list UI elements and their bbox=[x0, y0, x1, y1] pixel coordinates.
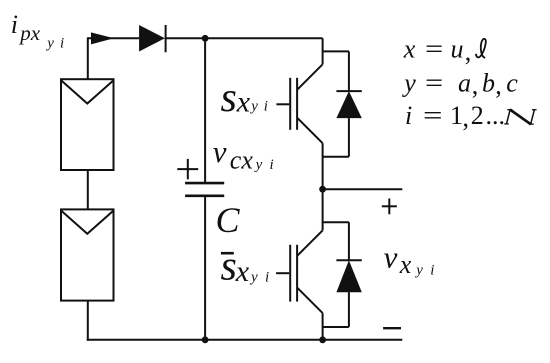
svg-text:y: y bbox=[254, 157, 263, 173]
svg-text:i: i bbox=[265, 270, 269, 286]
wire right branch top bbox=[322, 38, 324, 64]
diode D2 freewheel top bbox=[336, 51, 361, 156]
svg-text:=: = bbox=[425, 68, 443, 97]
node bottom right junction bbox=[319, 336, 326, 343]
label s_x_yi gate top bbox=[221, 75, 268, 121]
svg-text:i: i bbox=[264, 99, 268, 115]
wire stub to bottom freewheel diode upper bbox=[323, 221, 349, 223]
svg-text:i: i bbox=[270, 157, 274, 173]
wire emitter S2 to bottom bbox=[322, 313, 324, 340]
wire stub to bottom freewheel diode lower bbox=[323, 326, 349, 328]
wire left vertical top bbox=[87, 37, 89, 79]
svg-text:,: , bbox=[495, 71, 502, 100]
svg-text:...: ... bbox=[486, 101, 506, 130]
svg-text:i: i bbox=[430, 263, 434, 279]
svg-text:y: y bbox=[249, 99, 258, 115]
svg-text:y: y bbox=[414, 263, 423, 279]
node bottom capacitor junction bbox=[202, 336, 209, 343]
svg-text:u: u bbox=[451, 35, 464, 64]
wire top horizontal bbox=[88, 37, 323, 39]
wire stub to top freewheel diode upper bbox=[323, 50, 349, 52]
svg-text:i: i bbox=[60, 36, 64, 52]
node top junction bbox=[202, 35, 209, 42]
svg-text:cx: cx bbox=[230, 145, 254, 174]
label definitions line 1: x = u,l bbox=[403, 35, 486, 66]
svg-text:x: x bbox=[399, 250, 412, 279]
wire between panels bbox=[87, 170, 89, 209]
node midpoint bbox=[319, 186, 326, 193]
svg-text:c: c bbox=[506, 68, 518, 97]
svg-text:,: , bbox=[472, 71, 479, 100]
svg-text:x: x bbox=[236, 86, 251, 119]
svg-text:v: v bbox=[213, 134, 227, 169]
minus output terminal mark bbox=[383, 327, 401, 329]
svg-text:s: s bbox=[221, 75, 237, 121]
wire capacitor branch lower bbox=[204, 196, 206, 340]
svg-text:s: s bbox=[221, 243, 237, 289]
diode D3 freewheel bottom bbox=[336, 222, 361, 327]
wire emitter S1 to midpoint bbox=[322, 143, 324, 189]
IGBT S1 top bbox=[276, 64, 322, 143]
svg-text:v: v bbox=[384, 239, 398, 274]
wire capacitor branch upper bbox=[204, 38, 206, 183]
svg-text:C: C bbox=[216, 200, 241, 240]
label definitions line 3: i = 1,2...N bbox=[405, 101, 537, 132]
svg-text:,: , bbox=[465, 37, 472, 66]
svg-text:1: 1 bbox=[450, 101, 463, 130]
wire bottom horizontal bbox=[87, 339, 403, 341]
svg-text:=: = bbox=[425, 35, 443, 64]
svg-text:y: y bbox=[249, 270, 258, 286]
svg-text:x: x bbox=[235, 255, 250, 288]
PV panel PV2 bbox=[61, 209, 114, 300]
svg-text:x: x bbox=[403, 35, 416, 64]
label definitions line 2: y = a,b,c bbox=[401, 68, 518, 99]
svg-text:,: , bbox=[463, 103, 470, 132]
overbar of sbar bbox=[221, 252, 234, 255]
wire stub to top freewheel diode lower bbox=[323, 156, 349, 158]
svg-text:i: i bbox=[405, 101, 412, 130]
svg-text:y: y bbox=[45, 36, 54, 52]
IGBT S2 bottom bbox=[276, 230, 323, 313]
label sbar_x_yi gate bottom bbox=[221, 243, 270, 289]
diode D1 blocking bbox=[139, 25, 166, 52]
label i_px_yi bbox=[11, 10, 64, 52]
wire output plus terminal bbox=[323, 188, 403, 190]
capacitor C plates bbox=[185, 183, 224, 196]
svg-text:2: 2 bbox=[471, 101, 484, 130]
svg-text:y: y bbox=[401, 68, 416, 97]
svg-text:i: i bbox=[11, 10, 18, 39]
svg-text:a: a bbox=[458, 68, 471, 97]
PV panel PV1 bbox=[61, 79, 114, 170]
label v_x_yi output voltage bbox=[384, 239, 435, 279]
label v_cx_yi capacitor voltage bbox=[213, 134, 274, 174]
wire left vertical bottom bbox=[87, 301, 89, 341]
wire midpoint to S2 collector bbox=[322, 189, 324, 230]
svg-text:b: b bbox=[482, 68, 495, 97]
plus output terminal mark bbox=[382, 199, 397, 215]
svg-text:px: px bbox=[18, 21, 41, 45]
current arrow i_px bbox=[91, 32, 114, 44]
capacitor plus polarity mark bbox=[177, 159, 198, 179]
svg-text:=: = bbox=[423, 101, 443, 130]
